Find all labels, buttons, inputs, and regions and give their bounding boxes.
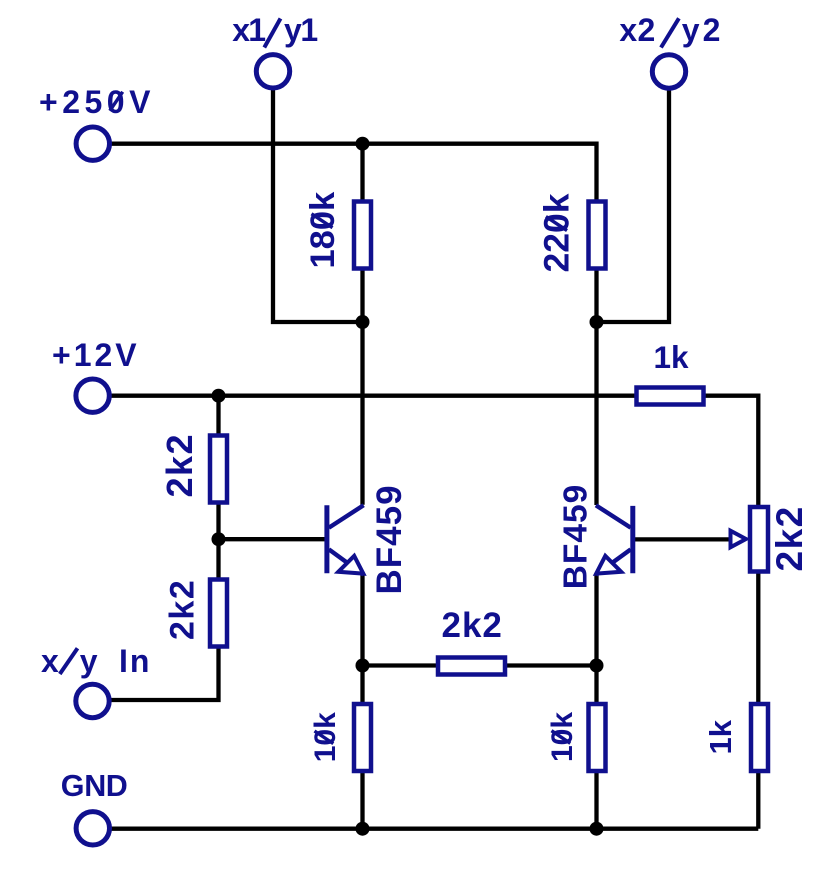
svg-text:180k: 180k: [304, 191, 342, 269]
svg-text:220k: 220k: [537, 193, 577, 272]
svg-text:1k: 1k: [654, 339, 690, 375]
svg-text:GND: GND: [61, 769, 130, 803]
svg-text:+12V: +12V: [52, 337, 140, 373]
svg-text:1k: 1k: [703, 719, 738, 754]
svg-text:BF459: BF459: [370, 484, 409, 594]
svg-text:In: In: [119, 643, 151, 679]
svg-text:2k2: 2k2: [159, 433, 200, 498]
svg-text:+250V: +250V: [39, 84, 155, 120]
svg-text:2k2: 2k2: [769, 505, 810, 571]
svg-text:2k2: 2k2: [442, 606, 503, 645]
svg-text:BF459: BF459: [558, 484, 595, 590]
svg-text:2k2: 2k2: [164, 579, 202, 640]
